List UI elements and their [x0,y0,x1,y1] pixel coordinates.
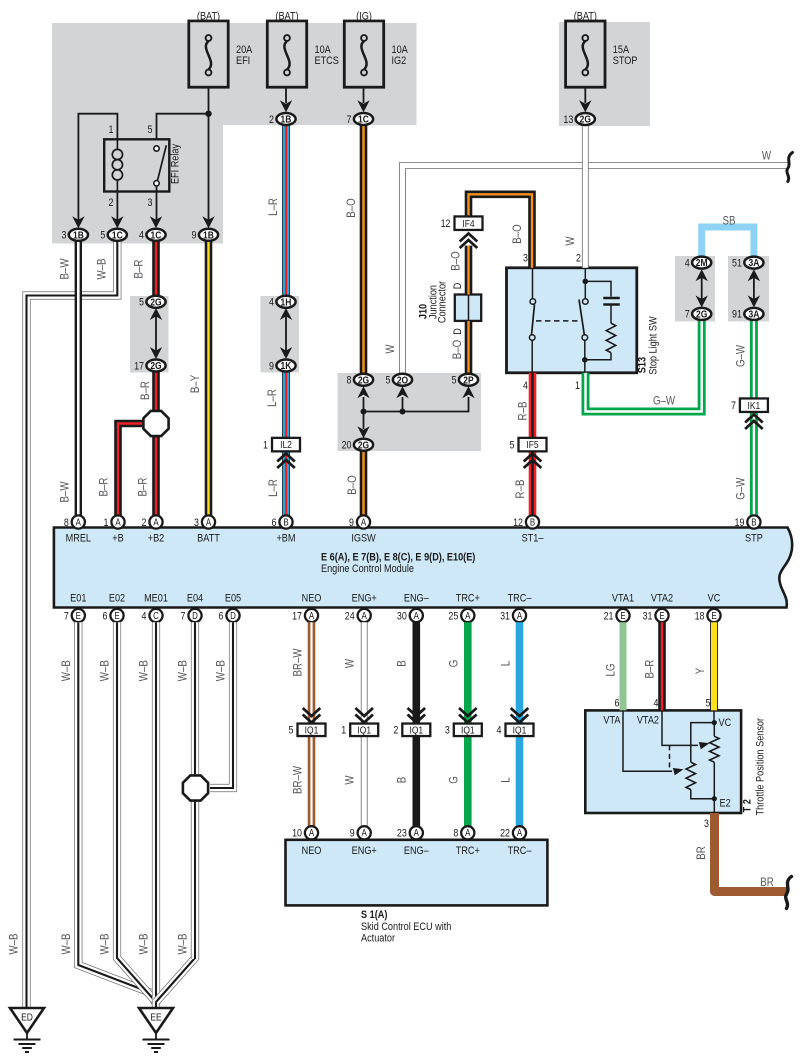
svg-text:IQ1: IQ1 [409,725,423,737]
svg-text:22: 22 [500,828,510,840]
IGSW junction links [363,397,365,412]
wire W-B E04 to EE [156,622,195,1002]
connector 2(1B) [276,113,295,125]
wire B-Y BATT [205,241,213,516]
svg-text:E04: E04 [187,593,204,605]
svg-text:TRC–: TRC– [508,845,532,857]
svg-text:Engine Control Module: Engine Control Module [321,563,414,575]
pin 9(A) ENG+ skid [358,826,371,839]
wire B-W MREL [75,241,82,516]
svg-text:3: 3 [523,253,528,265]
svg-text:G: G [448,660,461,668]
svg-text:8: 8 [453,828,458,840]
gray region 2M-2G pair [675,256,715,322]
svg-text:W–B: W–B [215,660,228,681]
svg-text:BR: BR [695,846,708,860]
wire G TRC+ upper [464,622,472,724]
pin 21(E) VTA1 [616,609,629,622]
svg-text:2G: 2G [150,360,161,372]
svg-text:W: W [384,344,397,354]
switch S13 Stop Light SW box [507,268,637,373]
connector 51(3A) [744,257,763,269]
svg-text:ENG+: ENG+ [352,593,377,605]
S13 internal right switch [584,268,586,281]
svg-text:3: 3 [148,197,153,209]
pin 2(A) +B2 [149,515,162,528]
connector 7(1C) [354,113,373,125]
svg-text:1: 1 [104,517,109,529]
svg-text:51: 51 [732,258,742,270]
svg-text:2P: 2P [463,375,474,387]
gray region 1H-1K pair [261,296,300,373]
connector 2 IQ1 [402,724,430,737]
svg-text:+B: +B [112,533,124,545]
svg-text:VTA2: VTA2 [637,715,659,727]
svg-text:W–B: W–B [177,660,190,681]
svg-text:2O: 2O [397,375,409,387]
wire SB 4(2M) to 51(3A) [702,227,754,257]
ground ED [10,1008,44,1033]
connector 9(1K) [276,360,295,372]
connector 3 IQ1 [454,724,482,737]
svg-text:IQ1: IQ1 [461,725,475,737]
connector 5(2P) [459,374,478,386]
svg-text:4: 4 [523,380,528,392]
svg-text:6: 6 [615,698,620,710]
svg-text:B–R: B–R [133,259,146,278]
svg-text:1: 1 [109,124,114,136]
svg-text:B–O: B–O [451,340,464,359]
pin 30(A) ENG&#8211; [410,609,423,622]
connector 13(2G) [576,113,595,125]
wire L-R IL2 to +BM [282,451,290,516]
TPS lower resistor [686,762,695,789]
pin 17(A) NEO [305,609,318,622]
svg-text:21: 21 [604,611,614,623]
svg-text:C: C [153,610,159,621]
svg-text:25: 25 [448,611,458,623]
svg-text:23: 23 [397,828,407,840]
svg-text:A: A [414,827,419,838]
wire BR-W NEO lower [308,736,316,826]
svg-text:2G: 2G [580,114,591,126]
connector 7 IK1 [740,398,768,412]
connector 20(2G) [354,439,373,451]
svg-text:12: 12 [513,517,523,529]
svg-text:B: B [283,517,288,528]
svg-text:VC: VC [719,717,732,729]
svg-text:7: 7 [347,114,352,126]
svg-text:4: 4 [685,258,690,270]
wire L TRC- upper [516,622,524,724]
pin 8(A) TRC+ skid [461,826,474,839]
svg-text:2G: 2G [696,309,707,321]
svg-text:W: W [344,658,357,668]
svg-text:B: B [530,517,535,528]
svg-text:1C: 1C [151,230,162,242]
EFI fuse feed wire [208,87,210,220]
svg-text:IQ1: IQ1 [357,725,371,737]
svg-text:31: 31 [643,611,653,623]
connector 5(2O) [393,374,412,386]
svg-text:2M: 2M [696,257,708,269]
svg-text:D: D [452,328,464,335]
svg-text:A: A [414,610,419,621]
svg-text:24: 24 [345,611,355,623]
wire Y VC [710,622,718,710]
svg-text:W–B: W–B [177,933,190,954]
svg-text:G–W: G–W [735,477,748,500]
svg-text:A: A [362,610,367,621]
pin 1(A) +B [111,515,124,528]
svg-text:W: W [344,775,357,785]
wire ETCS fuse to 2(1B) [285,87,287,103]
svg-text:A: A [153,517,158,528]
svg-text:5: 5 [100,230,105,242]
break symbol BR wire [786,877,792,909]
pin 25(A) TRC+ [461,609,474,622]
ECU S1(A) Skid Control box [286,840,548,906]
svg-text:EE: EE [150,1012,161,1024]
svg-text:A: A [362,827,367,838]
svg-text:W–B: W–B [138,933,151,954]
svg-text:B–R: B–R [137,477,150,496]
svg-text:IG2: IG2 [392,55,407,67]
svg-text:1H: 1H [281,297,292,309]
svg-text:1B: 1B [281,114,292,126]
svg-text:D: D [452,283,464,290]
connector 4(2M) [692,257,711,269]
svg-text:3: 3 [61,230,66,242]
connector 12 IF4 [455,216,483,230]
svg-text:W–B: W–B [99,933,112,954]
svg-text:2: 2 [142,517,147,529]
svg-text:E: E [114,610,119,621]
svg-text:VTA2: VTA2 [651,593,673,605]
TPS VTA2 line [662,710,698,745]
relay pin 2 wire [116,192,118,221]
svg-text:ETCS: ETCS [315,55,340,67]
relay EFI Relay box [104,139,169,191]
svg-text:ST1–: ST1– [522,533,544,545]
wire W-B E02 to EE [117,622,156,1002]
svg-text:D: D [230,610,236,621]
svg-text:TRC–: TRC– [508,593,532,605]
svg-text:ENG–: ENG– [404,845,429,857]
svg-text:1C: 1C [112,230,123,242]
fuse ETCS 10A [267,21,306,87]
svg-text:3A: 3A [748,257,759,269]
svg-text:B–O: B–O [345,198,358,217]
pin 12(B) ST1- [526,515,539,528]
svg-text:Y: Y [694,667,707,674]
svg-text:W: W [564,236,577,246]
svg-text:T 2: T 2 [742,799,754,812]
gray region IGSW junction [338,373,482,451]
relay switch contacts [154,146,159,151]
svg-text:STP: STP [745,533,763,545]
pin 4(C) ME01 [149,609,162,622]
connector 4 IQ1 [506,724,534,737]
connector 1 IL2 [272,438,300,452]
pin 7(D) E04 [188,609,201,622]
svg-text:5: 5 [386,375,391,387]
svg-text:E: E [659,610,664,621]
svg-text:B–R: B–R [139,381,152,400]
svg-text:5: 5 [139,297,144,309]
wire R-B S13 pin4 to IF5 [529,373,537,438]
svg-text:2G: 2G [358,440,369,452]
pin 10(A) NEO skid [305,826,318,839]
svg-text:4: 4 [269,297,274,309]
svg-text:ENG–: ENG– [404,593,429,605]
svg-text:3A: 3A [748,309,759,321]
splice splice W-B E04/E05 [183,775,208,800]
wire W-B 5(1C) to ED ground [27,241,118,1008]
svg-text:Skid Control ECU with: Skid Control ECU with [361,921,452,933]
svg-text:B–O: B–O [511,224,524,243]
svg-text:Actuator: Actuator [361,933,396,945]
svg-text:B–W: B–W [59,481,72,503]
wire through J10 [468,295,470,321]
connector 1 IQ1 [350,724,378,737]
wire BR-W NEO upper [308,622,316,724]
wire G-W S13 pin1 to 7(2G) [586,321,702,412]
link arrow 51(3A)-91(3A) [753,277,755,299]
svg-text:IF5: IF5 [526,439,538,451]
svg-text:1: 1 [341,725,346,737]
svg-text:NEO: NEO [302,845,322,857]
svg-text:6: 6 [219,611,224,623]
svg-text:A: A [309,827,314,838]
connector 5(2G) [146,296,165,308]
gray region 3A-3A pair [728,256,769,322]
svg-text:5: 5 [289,725,294,737]
svg-text:D: D [192,610,198,621]
wire B-O 7(1C) to 8(2G) [360,125,368,375]
svg-text:A: A [465,827,470,838]
svg-text:BR–W: BR–W [292,648,305,677]
wire B-R 17(2G) to splice [152,371,160,415]
junction connector J10 box [455,295,481,321]
wire B-O 5(2P) to J10 [465,321,473,375]
svg-text:1K: 1K [281,360,292,372]
pin 9(A) IGSW [357,515,370,528]
junction node relay pin5/fuse [205,111,211,117]
svg-text:VTA: VTA [603,715,620,727]
svg-text:W–B: W–B [99,660,112,681]
TPS dashed link [669,745,671,771]
pin 23(A) ENG&#8211; skid [410,826,423,839]
svg-text:L–R: L–R [267,479,280,497]
S13 mechanical link dashed [536,320,579,322]
TPS VTA line [623,710,672,771]
svg-text:A: A [115,517,120,528]
svg-text:R–B: R–B [517,402,530,421]
svg-text:91: 91 [732,309,742,321]
TPS VC line [713,710,715,722]
svg-text:(BAT): (BAT) [574,11,597,23]
S13 resistor [606,323,615,352]
pin 24(A) ENG+ [358,609,371,622]
gray region 2G pair [130,296,169,373]
pin 18(E) VC [707,609,720,622]
wire IG2 fuse to 7(1C) [363,87,365,103]
wire W ENG+ upper [361,622,368,724]
svg-text:(BAT): (BAT) [275,11,298,23]
pin 6(B) +BM [279,515,292,528]
svg-text:18: 18 [695,611,705,623]
svg-text:MREL: MREL [66,533,92,545]
svg-text:9: 9 [269,361,274,373]
relay coil [116,139,118,149]
relay pin 3 wire [156,186,158,220]
wire B-O IF4 to S13 pin3 [469,194,533,267]
svg-text:NEO: NEO [302,593,322,605]
svg-text:3: 3 [445,725,450,737]
svg-text:A: A [76,517,81,528]
svg-text:17: 17 [292,611,302,623]
pin 6(D) E05 [226,609,239,622]
svg-text:W–B: W–B [96,258,109,279]
connector 5 IF5 [519,438,547,452]
svg-text:1B: 1B [203,230,214,242]
svg-text:5: 5 [706,698,711,710]
gray region stop fuse [559,22,650,126]
svg-text:IF4: IF4 [462,218,475,230]
svg-text:W: W [762,150,772,163]
svg-text:IQ1: IQ1 [513,725,527,737]
wire G-W 91(3A) to IK1 [750,321,758,399]
arrows into relay connector row [72,216,84,228]
svg-text:12: 12 [441,218,451,230]
S13 capacitor branch [585,281,611,296]
svg-text:VTA1: VTA1 [612,593,634,605]
svg-text:2G: 2G [358,375,369,387]
svg-text:1: 1 [263,440,268,452]
svg-text:A: A [517,827,522,838]
svg-text:BR–W: BR–W [292,765,305,794]
pin 31(A) TRC&#8211; [513,609,526,622]
wire B-R splice to +B [118,424,143,516]
svg-text:2: 2 [576,253,581,265]
svg-text:W–B: W–B [60,933,73,954]
svg-text:B: B [396,777,409,783]
svg-text:ED: ED [21,1012,33,1024]
connector 5(1C) [108,229,127,241]
connector 4(1H) [276,296,295,308]
svg-text:7: 7 [731,400,736,412]
svg-text:2: 2 [269,114,274,126]
svg-text:(BAT): (BAT) [197,11,220,23]
sensor T2 Throttle Position Sensor box [585,710,741,813]
ECU box E6/E7/E8/E9/E10 Engine Control Module [54,528,792,608]
svg-text:A: A [361,517,366,528]
svg-text:(IG): (IG) [356,11,372,23]
link arrow 4(1H)-9(1K) [285,316,287,351]
svg-text:E2: E2 [720,798,731,810]
svg-text:13: 13 [563,114,573,126]
wire W-B ME01 to EE [152,622,160,1008]
svg-text:W–B: W–B [60,660,73,681]
svg-text:1B: 1B [73,230,84,242]
relay pin 5 wire [157,114,209,140]
svg-text:EFI: EFI [236,55,250,67]
svg-text:L: L [500,777,513,782]
wire L-R 2(1B) to 4(1H) [282,125,290,297]
svg-text:7: 7 [181,611,186,623]
gray harness region top-left [52,23,417,125]
svg-text:B–W: B–W [59,258,72,280]
svg-text:TRC+: TRC+ [456,845,480,857]
pin 8(A) MREL [72,515,85,528]
svg-text:31: 31 [500,611,510,623]
wire W-B splice to merge [191,801,199,959]
wire B-O J10 to IF4 [465,246,473,295]
svg-text:G–W: G–W [735,344,748,367]
splice splice B-R [143,411,168,436]
svg-text:8: 8 [347,375,352,387]
svg-text:4: 4 [654,698,659,710]
svg-text:4: 4 [139,230,144,242]
svg-text:5: 5 [510,440,515,452]
svg-text:+B2: +B2 [148,533,165,545]
svg-text:B: B [396,660,409,666]
wire BR E2 to right break [715,813,789,892]
svg-text:7: 7 [64,611,69,623]
svg-text:R–B: R–B [514,480,527,499]
svg-text:IL2: IL2 [280,439,292,451]
svg-text:VC: VC [708,593,721,605]
svg-text:20: 20 [342,440,352,452]
svg-text:B–O: B–O [346,475,359,494]
svg-text:1C: 1C [358,114,369,126]
break symbol W wire right [787,153,793,182]
connector 7(2G) [692,308,711,320]
svg-text:17: 17 [134,361,144,373]
svg-text:E: E [620,610,625,621]
svg-text:W–B: W–B [8,933,21,954]
svg-text:19: 19 [734,517,744,529]
fuse IG2 10A [344,21,383,87]
wire B ENG- lower [412,736,420,826]
pin 19(B) STP [747,515,760,528]
svg-text:B: B [751,517,756,528]
svg-text:2: 2 [393,725,398,737]
wire R-B IF5 to ST1- [529,452,537,516]
svg-text:6: 6 [272,517,277,529]
wire L-R 9(1K) to IL2 [282,371,290,439]
fuse STOP 15A [566,21,605,87]
connector 8(2G) [354,374,373,386]
svg-text:3: 3 [704,818,709,830]
wire W junction-connector to right break [403,166,790,375]
svg-text:E: E [76,610,81,621]
svg-text:ENG+: ENG+ [352,845,377,857]
wire STOP fuse to 13(2G) [584,87,586,103]
wire B-R 4(1C) to 5(2G) [152,241,160,297]
svg-text:E02: E02 [109,593,126,605]
svg-text:2: 2 [109,197,114,209]
svg-text:7: 7 [685,309,690,321]
svg-text:S 1(A): S 1(A) [361,909,387,921]
S13 internal left switch [532,268,534,299]
svg-text:3: 3 [194,517,199,529]
svg-text:9: 9 [350,828,355,840]
svg-text:E 6(A), E 7(B), E 8(C), E 9(D): E 6(A), E 7(B), E 8(C), E 9(D), E10(E) [321,552,475,564]
pin 31(E) VTA2 [655,609,668,622]
svg-text:5: 5 [452,375,457,387]
